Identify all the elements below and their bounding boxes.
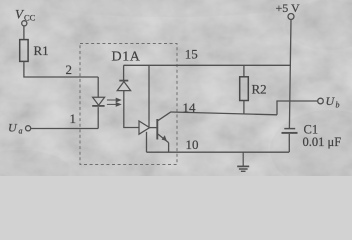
- optocoupler D1A dashed outline: [80, 44, 177, 165]
- photodiode PD: [117, 81, 130, 91]
- LED emission arrows: [107, 98, 121, 106]
- wire LED cathode to pin1: [97, 107, 99, 128]
- wire R1 to pin2 corner: [24, 61, 98, 77]
- wire pin14 jog to Ub: [277, 101, 318, 115]
- node Ua label: [8, 121, 23, 136]
- LED emitter diode: [92, 97, 104, 106]
- wire Vcc feed to amp: [148, 65, 150, 127]
- wire amp out to base: [150, 127, 157, 129]
- wire amp ground: [146, 132, 148, 152]
- wire pin15 rail: [124, 64, 291, 66]
- wire Vcc to R1: [23, 26, 25, 40]
- wire +5V down to C1: [289, 20, 291, 129]
- wire Ua to LED cathode: [31, 128, 99, 130]
- svg-text:R2: R2: [252, 81, 267, 96]
- wire pin2 to LED anode: [97, 77, 99, 97]
- wire ground rail / pin10: [147, 151, 290, 153]
- Vcc terminal: [22, 21, 27, 26]
- svg-text:+5 V: +5 V: [276, 1, 301, 15]
- resistor R1: [20, 40, 28, 62]
- capacitor C1: [282, 129, 298, 133]
- svg-text:14: 14: [183, 100, 197, 115]
- +5V terminal: [288, 14, 294, 20]
- svg-text:15: 15: [185, 47, 198, 62]
- svg-text:10: 10: [186, 137, 199, 152]
- wire emitter to ground rail: [168, 143, 170, 153]
- svg-text:b: b: [336, 101, 340, 110]
- svg-text:R1: R1: [34, 43, 49, 58]
- Ub output terminal: [318, 98, 324, 104]
- node Ub label: [326, 94, 340, 110]
- svg-text:1: 1: [70, 111, 77, 126]
- svg-text:D1A: D1A: [112, 50, 141, 65]
- node Vcc label: [15, 7, 36, 23]
- wire collector to pin14: [171, 112, 277, 115]
- output transistor: [157, 112, 171, 143]
- svg-text:U: U: [8, 121, 18, 135]
- wire C1 to ground rail: [288, 134, 290, 152]
- resistor R2: [240, 65, 249, 114]
- svg-text:U: U: [326, 94, 336, 108]
- svg-text:2: 2: [66, 62, 73, 77]
- svg-text:0.01 μF: 0.01 μF: [303, 135, 342, 149]
- ground: [237, 152, 249, 171]
- Ua input terminal: [26, 126, 31, 131]
- wire rail to photodiode: [123, 65, 125, 80]
- svg-text:a: a: [19, 127, 23, 136]
- amplifier: [139, 121, 150, 134]
- wire photodiode to amp input: [124, 91, 139, 128]
